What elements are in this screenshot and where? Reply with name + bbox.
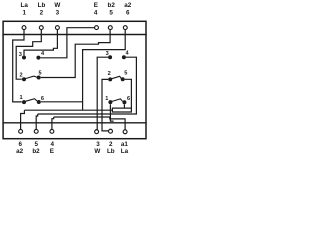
top terminal strip divider: [3, 34, 146, 36]
wire W/3 to link dot 3: [24, 30, 57, 56]
svg-text:1: 1: [105, 96, 108, 102]
svg-text:4: 4: [94, 9, 98, 16]
link dot r1: [108, 100, 112, 104]
link dot 5: [37, 76, 41, 80]
link dot 1: [22, 100, 26, 104]
rail W_b2 to right, up to r4: [38, 57, 137, 114]
wire r1 dot stem down with stub: [110, 104, 113, 121]
wire r3 dot west and down to bottom W terminal: [97, 57, 108, 130]
svg-text:4: 4: [41, 51, 45, 57]
terminal W/3 top: [55, 26, 59, 30]
link dot r3: [108, 55, 112, 59]
rail W_E to right with jog, down to bottom La: [54, 117, 125, 130]
svg-text:1: 1: [19, 95, 22, 101]
bottom terminal strip divider: [3, 122, 146, 124]
wire E/4 to link dot 4: [41, 28, 95, 58]
wire bottom b2 terminal to W_b2 rail: [36, 114, 38, 129]
svg-text:5: 5: [39, 71, 42, 77]
wire r6 dot stem down to link bar: [123, 104, 125, 108]
svg-text:W: W: [94, 148, 100, 155]
svg-text:3: 3: [106, 51, 109, 57]
wire r2 dot west and down to bottom Lb terminal: [102, 79, 109, 130]
svg-text:1: 1: [22, 9, 26, 16]
wires: [13, 28, 137, 131]
terminal a2/6 top: [123, 26, 127, 30]
svg-text:Lb: Lb: [107, 148, 115, 155]
svg-text:6: 6: [126, 9, 130, 16]
terminal b2/5 bottom: [34, 129, 38, 133]
svg-text:5: 5: [124, 71, 127, 77]
svg-text:3: 3: [19, 52, 22, 58]
wire link dot 6 to a2 vertical (tee): [41, 101, 83, 103]
svg-text:4: 4: [126, 51, 130, 57]
terminal a2/6 bottom: [19, 129, 23, 133]
link dot 3: [22, 56, 26, 60]
outer frame: [3, 21, 146, 138]
svg-text:b2: b2: [108, 2, 116, 9]
svg-text:La: La: [21, 2, 29, 9]
svg-text:6: 6: [127, 96, 130, 102]
svg-text:W: W: [54, 2, 60, 9]
terminal Lb/2 top: [39, 26, 43, 30]
terminal La/1 top: [22, 26, 26, 30]
bottom labels: [16, 141, 128, 155]
wire a2/6 down-left-down to lower bus junction: [83, 30, 126, 111]
wire bottom a2 terminal to W_a2 rail: [21, 110, 25, 129]
svg-text:6: 6: [41, 96, 44, 102]
wire bottom E terminal to W_E rail: [52, 117, 54, 129]
terminal E/4 bottom: [50, 129, 54, 133]
terminal Lb/2 bottom: [109, 129, 113, 133]
svg-text:2: 2: [40, 9, 44, 16]
svg-text:E: E: [94, 2, 98, 9]
blade r2-r5: [112, 76, 122, 78]
wire b2/5 to link dot 5: [41, 30, 110, 78]
svg-text:La: La: [121, 148, 129, 155]
terminal W/3 bottom: [95, 130, 99, 134]
svg-text:a2: a2: [124, 2, 132, 9]
blade 2-5: [25, 76, 37, 79]
link bar rectangle r5/r6/a2: [112, 108, 131, 112]
link dot r5: [121, 77, 125, 81]
svg-text:2: 2: [108, 71, 111, 77]
link dot 4: [36, 56, 40, 60]
terminal La/a1 bottom: [123, 130, 127, 134]
blade r1-r6: [112, 99, 123, 102]
link dot 6: [37, 100, 41, 104]
top labels: [21, 2, 132, 16]
blade 1-6: [26, 99, 37, 102]
wire r5 dot east, down to link bar: [125, 79, 132, 108]
terminal E/4 top: [95, 26, 99, 30]
svg-text:b2: b2: [32, 148, 40, 155]
top terminals (open circles): [22, 26, 127, 30]
link dot r6: [122, 100, 126, 104]
link dot r4: [122, 55, 126, 59]
svg-text:2: 2: [19, 73, 22, 79]
svg-text:a2: a2: [16, 148, 24, 155]
link dot r2: [108, 77, 112, 81]
rail W_a2 to right, into link bar: [24, 109, 112, 111]
svg-text:5: 5: [109, 9, 113, 16]
svg-text:Lb: Lb: [38, 2, 46, 9]
link dot 2: [22, 77, 26, 81]
wire Lb/2 to link dot 2: [16, 30, 41, 80]
bottom terminals (open circles): [19, 129, 127, 134]
wire La/1 to link dot 1: [13, 30, 24, 102]
left link block: [19, 51, 45, 104]
terminal b2/5 top: [108, 26, 112, 30]
right link block: [105, 51, 130, 105]
svg-text:3: 3: [56, 9, 60, 16]
svg-text:E: E: [50, 148, 54, 155]
